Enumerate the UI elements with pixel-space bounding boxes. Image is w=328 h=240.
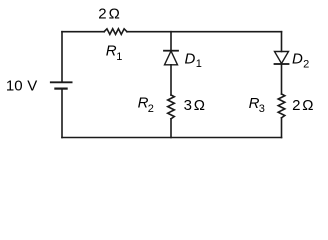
diode D2 cathode bar [275,63,289,65]
svg-text:R: R [106,43,117,60]
wire left vertical (battery top lead) [61,32,63,82]
wire right branch top (node to D2) [281,32,283,52]
resistor R2 zigzag [168,95,175,119]
battery B1 long plate [51,81,72,83]
diode D1 cathode bar [164,50,178,52]
svg-text:1: 1 [116,51,122,63]
svg-text:2: 2 [98,6,106,23]
diode D2 triangle [275,52,289,64]
svg-text:V: V [27,78,37,95]
wire left vertical (battery bottom lead) [61,89,63,138]
svg-text:10: 10 [6,78,23,95]
wire middle bottom (R2 to bottom wire) [170,119,172,138]
svg-text:3: 3 [259,103,265,115]
wire middle branch top (node to D1) [170,32,172,51]
svg-text:Ω: Ω [302,97,313,114]
svg-text:2: 2 [292,97,300,114]
wire top right (R1 to node B) [127,31,282,33]
wire middle (D1 to R2) [170,65,172,95]
resistor R3 zigzag [278,94,285,118]
resistor R1 (2 ohm) zigzag [104,29,127,35]
svg-text:Ω: Ω [109,6,120,23]
svg-text:1: 1 [196,58,202,70]
wire right bottom (R3 to bottom wire) [281,118,283,138]
svg-text:2: 2 [303,58,309,70]
svg-text:Ω: Ω [194,97,205,114]
diode D1 triangle [165,51,178,65]
battery B1 short plate [55,87,66,89]
svg-text:D: D [185,51,196,68]
wire top left (node A to R1) [62,31,104,33]
svg-text:3: 3 [184,97,192,114]
svg-text:2: 2 [148,103,154,115]
wire bottom [62,137,282,139]
wire right (D2 to R3) [281,64,283,94]
svg-text:D: D [292,51,303,68]
